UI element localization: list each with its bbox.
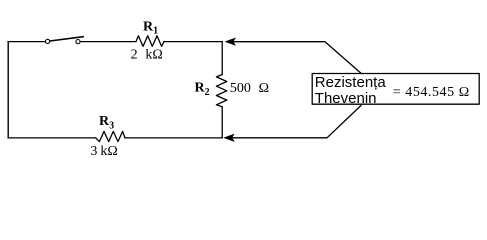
svg-text:Ω: Ω xyxy=(259,81,269,96)
arrowhead bottom xyxy=(224,134,234,141)
svg-text:kΩ: kΩ xyxy=(100,144,117,159)
svg-text:R2: R2 xyxy=(195,81,210,99)
arrowhead top xyxy=(225,38,235,45)
resistor R3 xyxy=(96,131,125,141)
wire top right segment xyxy=(164,41,222,43)
wire left vertical xyxy=(7,42,9,138)
switch SW1 xyxy=(46,37,84,44)
svg-text:R3: R3 xyxy=(99,114,114,132)
svg-text:Rezistența: Rezistența xyxy=(315,74,387,91)
wire right vertical lower xyxy=(221,107,223,138)
pointer line top xyxy=(234,42,362,74)
resistor R1 xyxy=(136,36,164,47)
svg-text:kΩ: kΩ xyxy=(145,48,162,63)
resistor R2 xyxy=(216,75,226,107)
svg-text:= 454.545 Ω: = 454.545 Ω xyxy=(393,85,470,100)
svg-text:500: 500 xyxy=(230,81,251,96)
wire top mid segment xyxy=(80,41,136,43)
wire bottom left segment xyxy=(8,137,96,139)
callout box Rezistenta Thevenin xyxy=(312,74,479,105)
svg-text:Thevenin: Thevenin xyxy=(315,90,377,107)
wire top-left segment xyxy=(8,41,45,43)
svg-text:2: 2 xyxy=(131,48,138,63)
svg-text:3: 3 xyxy=(90,144,97,159)
wire bottom right segment xyxy=(125,137,222,139)
pointer line bottom xyxy=(233,106,362,138)
wire right vertical upper xyxy=(221,42,223,75)
svg-text:R1: R1 xyxy=(143,20,158,37)
